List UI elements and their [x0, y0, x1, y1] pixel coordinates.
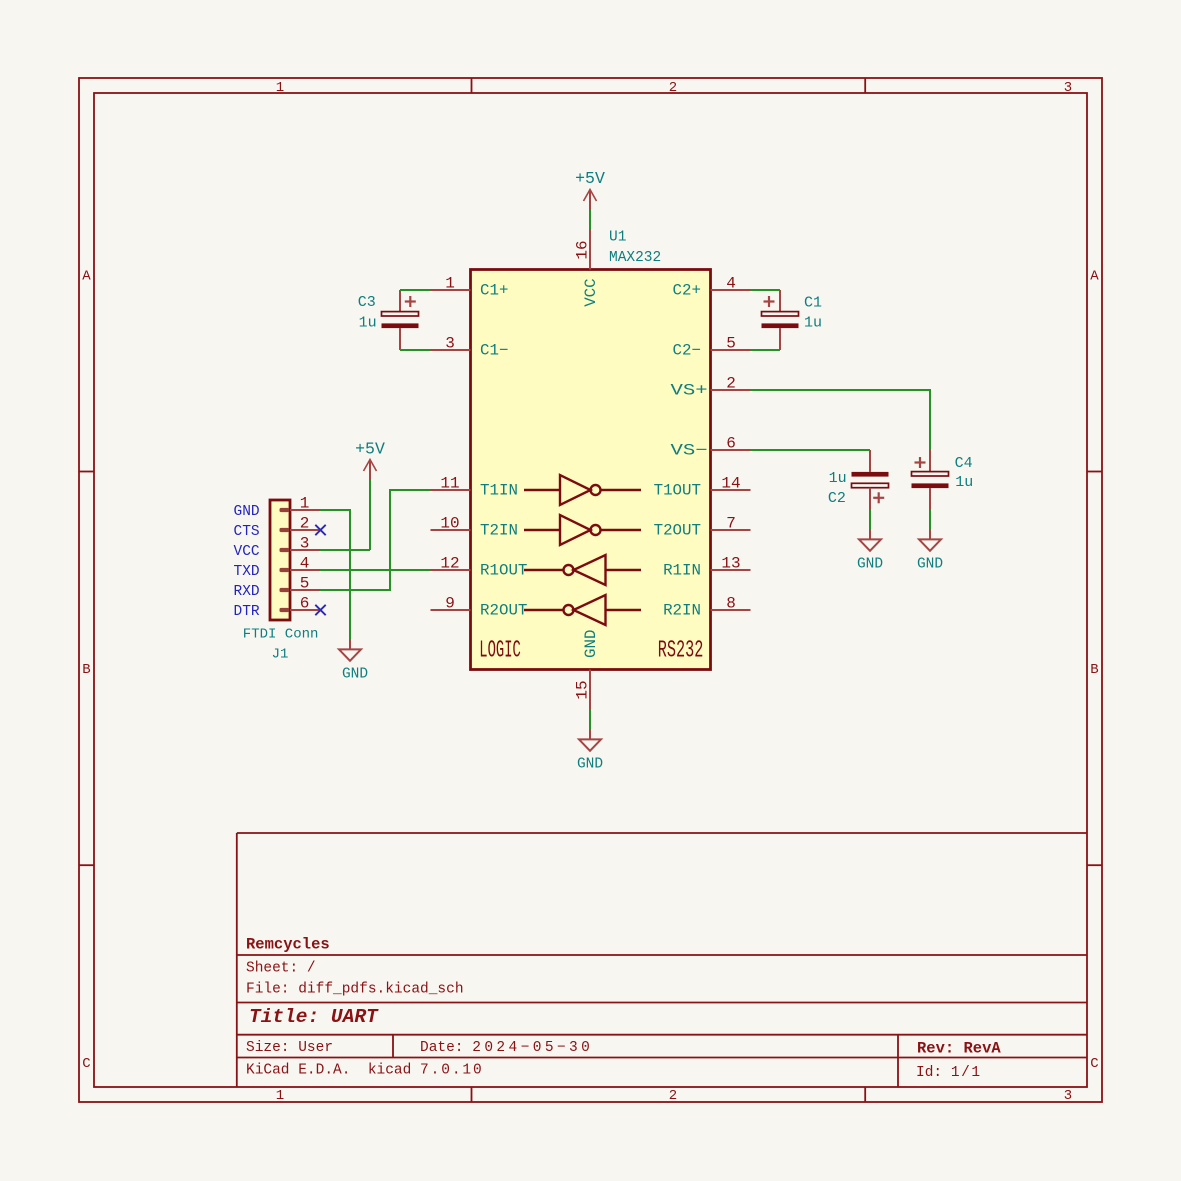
svg-text:B: B	[1090, 662, 1098, 678]
svg-text:R1OUT: R1OUT	[480, 562, 527, 580]
pin 1 C1+	[431, 289, 471, 291]
svg-text:Rev: RevA: Rev: RevA	[917, 1040, 1001, 1058]
svg-text:CTS: CTS	[234, 524, 260, 540]
svg-text:2: 2	[669, 80, 677, 96]
svg-text:Size: User: Size: User	[246, 1040, 333, 1056]
svg-text:FTDI Conn: FTDI Conn	[243, 627, 319, 643]
svg-text:13: 13	[721, 555, 740, 573]
svg-text:C2: C2	[828, 490, 846, 507]
svg-text:16: 16	[574, 240, 592, 259]
inverter T2	[524, 515, 641, 545]
wire GND pin15 to ground	[589, 710, 591, 730]
wire C3 to C1-	[400, 349, 431, 351]
wire C2- to C1	[751, 349, 781, 351]
svg-text:C1+: C1+	[480, 282, 508, 300]
inverter R2	[524, 595, 641, 625]
svg-text:T2IN: T2IN	[480, 522, 518, 540]
svg-text:T2OUT: T2OUT	[654, 522, 701, 540]
svg-text:VCC: VCC	[582, 278, 600, 306]
svg-text:12: 12	[440, 555, 459, 573]
svg-text:GND: GND	[342, 666, 368, 682]
svg-text:1u: 1u	[829, 470, 847, 487]
wires	[320, 210, 930, 730]
pin 3	[290, 549, 320, 551]
pin 14 T1OUT	[711, 489, 751, 491]
svg-text:VCC: VCC	[234, 544, 260, 560]
ground below connector pin1 wire	[339, 640, 361, 661]
svg-text:GND: GND	[917, 556, 943, 572]
pin 4 C2+	[711, 289, 751, 291]
ic pin numbers	[440, 240, 740, 699]
pin 6	[290, 609, 320, 611]
pin 8 R2IN	[711, 609, 751, 611]
svg-text:1u: 1u	[359, 315, 377, 332]
title block	[237, 833, 1087, 1087]
svg-text:C: C	[1090, 1056, 1098, 1072]
svg-text:9: 9	[445, 595, 455, 613]
net labels	[234, 504, 260, 620]
svg-text:2: 2	[726, 375, 736, 393]
inverter T1	[524, 475, 641, 505]
contact pin 5	[280, 588, 290, 592]
ic pin names	[480, 282, 708, 620]
svg-text:2: 2	[300, 515, 310, 533]
svg-text:11: 11	[440, 475, 459, 493]
contact pin 6	[280, 608, 290, 612]
svg-text:GND: GND	[857, 556, 883, 572]
svg-text:2: 2	[669, 1088, 677, 1104]
svg-text:Id: 1/1: Id: 1/1	[916, 1065, 982, 1081]
power +5V above IC	[584, 190, 597, 211]
svg-text:Remcycles: Remcycles	[246, 936, 330, 954]
pin 5 C2-	[711, 349, 751, 351]
svg-text:1: 1	[276, 80, 284, 96]
svg-text:6: 6	[726, 435, 736, 453]
svg-text:C4: C4	[955, 455, 973, 472]
capacitor C3 1u	[358, 290, 419, 350]
svg-text:KiCad E.D.A. kicad 7.0.10: KiCad E.D.A. kicad 7.0.10	[246, 1063, 484, 1079]
svg-text:1: 1	[276, 1088, 284, 1104]
pin 10 T2IN	[431, 529, 471, 531]
pin 5	[290, 589, 320, 591]
sheet border frame	[79, 78, 1102, 1102]
svg-text:C: C	[82, 1056, 90, 1072]
svg-text:5: 5	[300, 575, 310, 593]
capacitor C2 1u (mirrored)	[828, 450, 889, 510]
wire +5V drop to VCC wire	[369, 480, 371, 550]
svg-text:1: 1	[300, 495, 310, 513]
svg-text:RXD: RXD	[234, 584, 260, 600]
svg-text:GND: GND	[582, 630, 600, 658]
svg-text:4: 4	[300, 555, 310, 573]
svg-text:GND: GND	[234, 504, 260, 520]
capacitor C4 1u	[912, 450, 974, 510]
svg-text:1: 1	[445, 275, 455, 293]
pin 12 R1OUT	[431, 569, 471, 571]
svg-text:VS−: VS−	[671, 442, 708, 460]
wire VS+ to C4	[751, 390, 931, 450]
svg-text:GND: GND	[577, 756, 603, 772]
svg-text:TXD: TXD	[234, 564, 260, 580]
svg-text:14: 14	[721, 475, 740, 493]
svg-text:5: 5	[726, 335, 736, 353]
svg-text:VS+: VS+	[671, 382, 708, 400]
pin 9 R2OUT	[431, 609, 471, 611]
svg-text:10: 10	[440, 515, 459, 533]
pin 2	[290, 529, 320, 531]
wire J1 pin3 VCC	[320, 549, 370, 551]
ground below C4	[919, 530, 941, 551]
svg-text:Date: 2024−05−30: Date: 2024−05−30	[420, 1040, 593, 1056]
contact pin 2	[280, 528, 290, 532]
ground below IC pin15	[579, 730, 601, 751]
svg-text:3: 3	[1064, 80, 1072, 96]
svg-text:Sheet: /: Sheet: /	[246, 961, 316, 977]
svg-text:R1IN: R1IN	[663, 562, 701, 580]
contact pin 4	[280, 568, 290, 572]
svg-text:3: 3	[300, 535, 310, 553]
svg-text:J1: J1	[272, 647, 289, 663]
svg-text:A: A	[82, 269, 91, 285]
pin 2 VS+	[711, 389, 751, 391]
svg-text:C2−: C2−	[673, 342, 701, 360]
svg-text:C1−: C1−	[480, 342, 508, 360]
svg-text:C1: C1	[804, 295, 822, 312]
svg-text:B: B	[82, 662, 90, 678]
pin 16 VCC	[589, 230, 591, 270]
pin 13 R1IN	[711, 569, 751, 571]
svg-text:1u: 1u	[955, 474, 973, 491]
frame reference labels	[82, 80, 1099, 1104]
pin 15 GND	[589, 670, 591, 711]
pin 1	[290, 509, 320, 511]
svg-text:Title: UART: Title: UART	[249, 1006, 379, 1028]
svg-text:1u: 1u	[804, 315, 822, 332]
svg-text:15: 15	[574, 680, 592, 699]
wire C2 to GND	[869, 510, 871, 530]
svg-text:8: 8	[726, 595, 736, 613]
pin 11 T1IN	[431, 489, 471, 491]
svg-text:LOGIC: LOGIC	[479, 637, 521, 664]
power +5V above connector	[364, 460, 377, 481]
svg-text:A: A	[1090, 269, 1099, 285]
svg-text:C2+: C2+	[673, 282, 701, 300]
capacitor C1 1u	[762, 290, 823, 350]
wire +5V to VCC pin16	[589, 210, 591, 230]
svg-text:C3: C3	[358, 294, 376, 311]
no-connect flag pin 6	[315, 605, 325, 615]
wire RXD to T1IN	[320, 490, 431, 590]
inverter R1	[524, 555, 641, 585]
svg-text:+5V: +5V	[575, 169, 605, 188]
wire VS- to C2	[751, 449, 871, 451]
connector contacts	[280, 508, 290, 612]
svg-text:MAX232: MAX232	[609, 250, 661, 266]
svg-text:File: diff_pdfs.kicad_sch: File: diff_pdfs.kicad_sch	[246, 982, 464, 998]
svg-text:3: 3	[445, 335, 455, 353]
svg-text:T1OUT: T1OUT	[654, 482, 701, 500]
wire C3 to C1+	[400, 289, 431, 291]
svg-text:7: 7	[726, 515, 736, 533]
svg-text:3: 3	[1064, 1088, 1072, 1104]
ground below C2	[859, 530, 881, 551]
pin 3 C1-	[431, 349, 471, 351]
wire C2+ to C1	[751, 289, 781, 291]
wire J1 pin1 to ground	[320, 510, 350, 640]
wire C4 to GND	[929, 510, 931, 530]
contact pin 1	[280, 508, 290, 512]
wire TXD to R1OUT	[320, 569, 431, 571]
connector body J1	[270, 500, 290, 620]
connector pin numbers	[300, 495, 310, 613]
svg-text:U1: U1	[609, 230, 626, 246]
ic body U1 MAX232	[471, 270, 711, 670]
svg-text:6: 6	[300, 595, 310, 613]
svg-text:4: 4	[726, 275, 736, 293]
svg-text:+5V: +5V	[355, 440, 385, 459]
svg-text:RS232: RS232	[658, 637, 704, 664]
no-connect flag pin 2	[315, 525, 325, 535]
svg-text:R2IN: R2IN	[663, 602, 701, 620]
pin 7 T2OUT	[711, 529, 751, 531]
svg-text:DTR: DTR	[234, 604, 260, 620]
pin 6 VS-	[711, 449, 751, 451]
ic pin stubs	[431, 230, 751, 710]
connector pin stubs	[290, 510, 320, 610]
pin 4	[290, 569, 320, 571]
contact pin 3	[280, 548, 290, 552]
svg-text:T1IN: T1IN	[480, 482, 518, 500]
svg-text:R2OUT: R2OUT	[480, 602, 527, 620]
